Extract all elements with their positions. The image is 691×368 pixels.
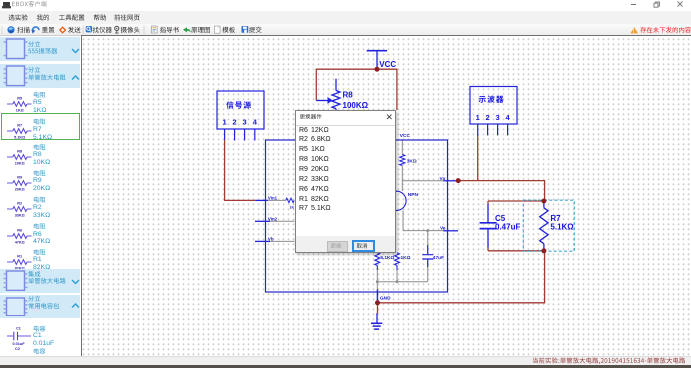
svg-text:33KΩ: 33KΩ: [14, 214, 24, 218]
svg-text:C1: C1: [16, 326, 21, 330]
svg-text:10KΩ: 10KΩ: [14, 161, 24, 165]
svg-text:1KΩ: 1KΩ: [15, 109, 23, 113]
svg-text:0.01uF: 0.01uF: [12, 341, 25, 345]
svg-text:R5: R5: [17, 97, 22, 101]
svg-text:R2: R2: [17, 202, 22, 206]
svg-text:20KΩ: 20KΩ: [14, 187, 24, 191]
svg-text:R7: R7: [17, 123, 22, 127]
svg-text:R6: R6: [17, 228, 22, 232]
svg-text:47KΩ: 47KΩ: [14, 240, 24, 244]
svg-text:R8: R8: [17, 149, 22, 153]
svg-text:R9: R9: [17, 175, 22, 179]
svg-text:R1: R1: [17, 254, 22, 258]
svg-text:5.1KΩ: 5.1KΩ: [14, 136, 25, 140]
